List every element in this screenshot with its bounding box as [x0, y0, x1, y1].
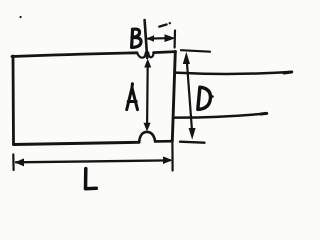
- dimension D top extension tick: [181, 50, 210, 52]
- bottom lead wire end thickening: [261, 112, 267, 116]
- top lead wire end thickening: [284, 70, 292, 74]
- stray mark above B arrow: [159, 25, 166, 27]
- top terminal lead wire (horizontal): [175, 72, 292, 74]
- dimension L line: [16, 160, 170, 162]
- stray dot above B arrow: [169, 22, 171, 24]
- bottom terminal lead wire (horizontal): [175, 113, 268, 117]
- wire: body bottom edge (right of hump): [155, 140, 172, 143]
- dimension L left extension: [12, 155, 15, 171]
- top lead wire (vertical): [145, 20, 148, 58]
- wire: body left edge: [12, 56, 15, 144]
- stray dot right of label D: [211, 95, 214, 98]
- arrowhead A up: [144, 59, 151, 68]
- label D: [198, 87, 211, 109]
- dimension B line: [148, 37, 166, 40]
- dimension D bottom extension tick: [180, 142, 205, 143]
- lead seal squiggle on top edge: [137, 53, 154, 58]
- arrowhead L left: [15, 158, 24, 166]
- arrowhead B right (thick): [165, 34, 176, 42]
- label A: [127, 84, 138, 110]
- label L: [86, 169, 97, 189]
- wire: body bottom edge (left of hump): [14, 142, 140, 144]
- arrowhead D down: [189, 128, 196, 140]
- dimension D line: [187, 62, 192, 128]
- arrowhead D up: [183, 52, 190, 64]
- wire: body top edge (left of squiggle): [12, 53, 137, 57]
- lead exit hump on bottom edge: [139, 132, 155, 142]
- stray speck near top-left: [20, 16, 22, 18]
- dimension B right extension tick: [174, 31, 177, 48]
- wire: body right edge: [172, 52, 175, 142]
- arrowhead L right: [163, 156, 173, 164]
- dimension A line: [146, 64, 149, 124]
- label B: [132, 29, 141, 47]
- dimension L right extension: [171, 142, 173, 171]
- arrowhead B left: [146, 35, 154, 42]
- wire: body top edge (right of squiggle): [154, 52, 176, 53]
- arrowhead A down: [144, 123, 151, 132]
